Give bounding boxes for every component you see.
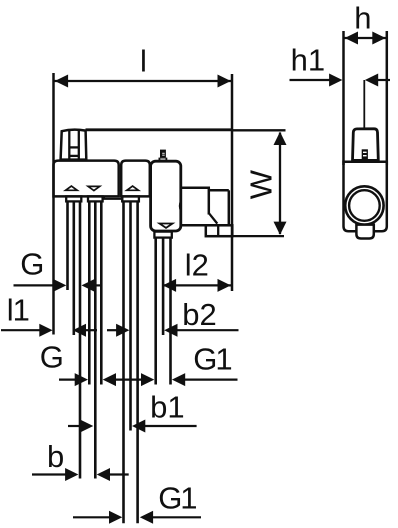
knob (front view) [61, 130, 87, 160]
flow triangle up (box1 left) [66, 186, 78, 190]
W arrow up [274, 132, 287, 145]
dimension G (row1) left arrow [53, 279, 66, 292]
dimension l arrow right [218, 75, 231, 88]
svg-text:h: h [354, 1, 371, 36]
dimension l1 arrow at pipe1 axis [73, 324, 86, 337]
pipe 4 line 2 [162, 238, 165, 335]
bottom foot tab (side view) [356, 225, 373, 239]
pipe 2 line 3 [100, 201, 103, 384]
pipe 2 line 1 [88, 201, 91, 384]
side view left extension/edge line [342, 31, 345, 165]
outlet foot divider [217, 225, 219, 236]
dimension l arrow left [55, 75, 68, 88]
pipe 3 collar [122, 196, 139, 201]
dimension l1 arrow at body edge [39, 324, 52, 337]
right block top edge (right section) [209, 189, 229, 192]
body top bar line [86, 128, 233, 131]
flow triangle down (box1 right) [88, 186, 100, 190]
dimension G (row3) right arrow [103, 373, 116, 386]
outlet foot box [206, 225, 233, 236]
dimension G (row3) left tail [59, 379, 77, 381]
flow triangle up (box2) [127, 186, 139, 190]
svg-text:G: G [20, 247, 44, 282]
dimension h arrow right [372, 32, 385, 45]
svg-text:G1: G1 [158, 480, 196, 515]
dimension b2 arrow left [116, 324, 129, 337]
union nut inner circle [349, 190, 380, 221]
dimension G (row1) right tail [94, 284, 102, 286]
dimension G (row1) left tail [14, 284, 56, 286]
svg-text:b2: b2 [182, 297, 216, 332]
svg-text:b1: b1 [150, 389, 184, 424]
flow triangle down (valve module) [160, 224, 173, 228]
dimension b1 arrow right [132, 420, 145, 433]
pipe 4 line 3 [169, 238, 172, 385]
body box 1 [54, 161, 119, 197]
knob axis center line [363, 80, 365, 129]
pipe 1 collar [66, 196, 81, 201]
dimension b1 right tail [145, 425, 197, 427]
dimension h1 arrow at knob axis [365, 74, 378, 87]
union nut outer circle [345, 186, 383, 224]
shared tail between G and G1 [115, 379, 142, 381]
right block chamfer [209, 213, 217, 223]
right block divider [208, 188, 211, 215]
dimension l line [54, 80, 233, 82]
dimension G1 (bottom) left arrow [109, 511, 122, 524]
svg-text:l1: l1 [7, 293, 29, 328]
body box 2 [121, 161, 150, 197]
right block right edge [228, 190, 231, 225]
dimension b arrow right [97, 468, 110, 481]
dimension h line [344, 37, 387, 39]
knob (side view) [353, 129, 379, 161]
nipple on valve module [160, 150, 166, 158]
W arrow down [274, 222, 287, 235]
right block top edge (left section) [181, 186, 210, 189]
W dimension line [279, 133, 281, 235]
svg-text:G1: G1 [193, 341, 231, 376]
extension line left (l dimension / body left edge) [52, 73, 55, 335]
side view right extension/edge line [386, 31, 389, 165]
svg-text:b: b [47, 439, 64, 474]
dimension l1 right tail [85, 329, 97, 331]
dimension h1 right tail [377, 79, 390, 81]
pipe 1 line 1 [66, 201, 69, 290]
W bottom extension line [233, 235, 284, 237]
dimension b1 left tail [68, 425, 81, 427]
pipe 2 line 2 [94, 201, 97, 478]
pipe 4 collar [154, 232, 171, 238]
dimension l1 tail [1, 329, 41, 331]
pipe 3 line 3 [136, 201, 139, 523]
svg-text:G: G [40, 340, 64, 375]
pipe 2 collar [88, 196, 103, 201]
dimension b1 arrow left [80, 420, 93, 433]
knob stem (side view) [362, 149, 368, 160]
svg-text:l2: l2 [185, 247, 209, 282]
valve module right bulge [180, 201, 181, 212]
svg-text:l: l [140, 44, 147, 79]
dimension l2 arrow left [163, 279, 176, 292]
pipe 3 line 2 [129, 201, 132, 430]
dimension l2 line [162, 284, 232, 286]
dimension G (row3) left arrow [75, 373, 88, 386]
pipe 3 line 1 [122, 201, 125, 523]
extension line right (l & l2 dimension / body right edge) [231, 74, 234, 291]
side view body mid line [344, 160, 387, 163]
dimension G (row1) right arrow [82, 279, 95, 292]
dimension l2 arrow right [218, 279, 231, 292]
dimension G1 (bottom) left tail [73, 516, 110, 518]
dimension G1 (bottom) right tail [152, 516, 201, 518]
dimension b2 right tail [177, 329, 239, 331]
dimension G1 (bottom) right arrow [140, 511, 153, 524]
dimension b right tail [109, 473, 129, 475]
dimension b2 left tail [107, 329, 118, 331]
side view body [344, 162, 387, 232]
dimension G1 (row3) left arrow [141, 373, 154, 386]
svg-text:W: W [243, 169, 278, 199]
W top extension line [232, 129, 286, 131]
dimension h1 arrow at left edge [329, 74, 342, 87]
dimension G1 (row3) right arrow [172, 373, 185, 386]
dimension G1 (row3) right tail [184, 379, 237, 381]
dimension b2 arrow right [164, 324, 177, 337]
dimension b arrow left [65, 468, 78, 481]
valve module [151, 161, 181, 231]
pipe 4 line 1 [154, 238, 157, 385]
pipe 1 line 3 [79, 201, 82, 478]
bottom step [104, 196, 122, 198]
right block bottom edge [180, 224, 230, 227]
svg-text:h1: h1 [291, 43, 325, 78]
dimension h arrow left [345, 32, 358, 45]
pipe 1 line 2 [73, 201, 76, 335]
dimension b left tail [32, 473, 66, 475]
dimension h1 tail [290, 79, 332, 81]
